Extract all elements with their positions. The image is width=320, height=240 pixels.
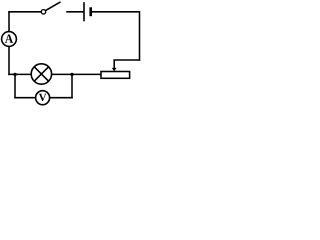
lamp X cross line 2 [34, 67, 48, 81]
voltmeter branch right vertical [71, 74, 73, 97]
voltmeter branch left vertical [14, 74, 16, 97]
switch S pivot circle [41, 10, 45, 14]
rheostat slider arrow stem [113, 60, 115, 68]
voltmeter branch bottom horizontal [15, 97, 72, 99]
bottom main wire to rheostat [9, 73, 101, 75]
ammeter A circle [2, 32, 17, 47]
battery long plate [83, 2, 85, 21]
left vertical wire through ammeter [8, 12, 10, 75]
wire battery to top-right corner and right vertical down [92, 12, 140, 60]
wire switch to battery positive plate [67, 11, 84, 13]
wire top-left from corner to switch pivot [9, 11, 41, 13]
rheostat R body rectangle [101, 72, 130, 79]
voltmeter V label [39, 94, 47, 101]
junction dot left of lamp [13, 73, 16, 76]
junction dot right of lamp [70, 73, 73, 76]
switch S lever (open) [46, 2, 61, 10]
wire horizontal to rheostat slider [114, 59, 139, 61]
battery short plate [89, 7, 92, 16]
ammeter A label [5, 35, 13, 43]
rheostat slider arrowhead [112, 68, 117, 72]
lamp X cross line 1 [34, 67, 48, 81]
voltmeter V circle [36, 91, 50, 105]
lamp L circle [31, 64, 51, 84]
